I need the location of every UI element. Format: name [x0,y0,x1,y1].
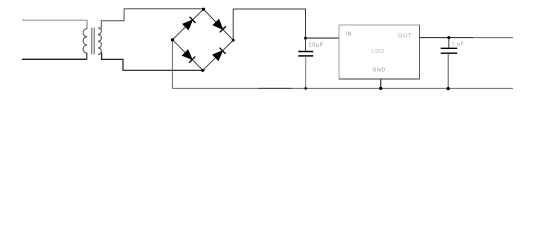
bridge rectifier diamond outline [172,9,233,70]
capacitor C2 plates [441,47,458,49]
svg-text:10µF: 10µF [309,43,325,49]
junction: C2 top node [447,36,450,39]
junction: C1 top node [304,37,307,40]
wire: regulator GND stub [380,79,382,88]
junction: bridge right corner [232,39,235,42]
transformer T1 primary stub bottom [86,53,88,60]
regulator U1 box bottom edge (darker) [339,78,420,80]
wire: ground rail darker stretch [258,87,292,89]
svg-text:GND: GND [373,67,386,73]
wire: AC input bottom [22,58,87,60]
capacitor C1 bottom stub [305,56,307,88]
svg-text:LDO: LDO [371,49,385,55]
regulator U1 box [339,25,420,79]
transformer T1 primary stub top [86,20,88,29]
wire: AC input top [22,19,87,21]
capacitor C2 top stub [448,38,450,48]
wire: OUT to output terminal [420,37,474,39]
capacitor C1 plates [298,51,313,53]
wire: plus output riser and top rail to C1 node [233,9,305,40]
wire: secondary top (to bridge AC1) [101,9,203,30]
svg-text:IN: IN [346,32,352,38]
junction: C1 bottom node [304,87,307,90]
junction: GND node on rail [379,87,382,90]
capacitor C2 bottom stub [447,53,449,88]
transformer T1 primary winding [83,29,87,54]
junction: bridge top corner [202,8,205,11]
capacitor C1 top stub [305,38,307,51]
wire: minus output drop (bridge left corner to ground rail) [171,40,173,89]
wire: ground rail [172,87,513,89]
transformer T1 secondary winding [98,28,101,55]
junction: bridge left corner [171,38,174,41]
svg-text:OUT: OUT [398,34,413,40]
wire: node to regulator IN [306,37,340,39]
diode D1 (left->top) [183,20,193,30]
svg-text:1 µF: 1 µF [452,41,464,47]
junction: C2 bottom node [447,87,450,90]
regulator U1 box right edge (darker) [419,25,421,79]
diode D2 (top->right) [213,19,223,29]
transformer T1 core [91,28,93,55]
junction: bridge bottom corner [201,69,204,72]
diode D4 (bottom->right) [213,51,223,61]
diode D3 (left->bottom) [182,50,192,60]
wire: secondary bottom (to bridge AC2) [102,53,203,71]
